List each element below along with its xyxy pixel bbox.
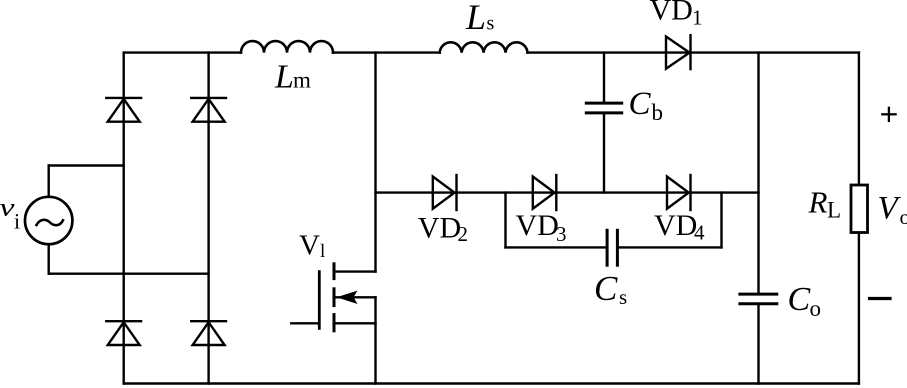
diode bridge top-right: bar	[191, 97, 226, 99]
svg-text:o: o	[900, 205, 907, 229]
svg-text:C: C	[594, 269, 618, 308]
label vi	[0, 195, 20, 234]
label RL	[808, 185, 842, 223]
wire bridge leg 1	[122, 53, 124, 384]
svg-text:l: l	[320, 241, 325, 262]
diode VD4 triangle	[667, 177, 689, 209]
capacitor Co plates	[740, 294, 777, 304]
transistor V1 MOSFET channel segments	[333, 264, 336, 331]
svg-text:4: 4	[694, 220, 705, 244]
label Ls	[465, 0, 495, 37]
label Lm	[274, 58, 311, 95]
svg-text:o: o	[810, 296, 822, 321]
diode bridge top-left: bar	[106, 97, 141, 99]
label VD2	[418, 211, 468, 246]
svg-text:L: L	[827, 197, 841, 222]
wire bottom bus	[124, 382, 859, 384]
wire AC source top	[49, 164, 124, 166]
wire Cs branch right vertical	[720, 193, 722, 248]
svg-text:i: i	[14, 209, 20, 234]
transistor V1 source lead	[334, 322, 376, 324]
transistor V1 drain lead	[334, 270, 376, 272]
svg-text:VD: VD	[418, 211, 461, 244]
diode bridge bottom-left: triangle	[108, 322, 140, 345]
diode VD2 triangle	[433, 177, 455, 209]
wire AC source bottom	[49, 273, 209, 275]
svg-text:VD: VD	[650, 0, 693, 27]
svg-text:3: 3	[556, 222, 567, 246]
svg-text:L: L	[274, 58, 294, 95]
wire top bus left segment	[124, 51, 241, 53]
wire node A vertical (Lm-Ls junction down to MOSFET drain)	[374, 53, 376, 272]
label VD4	[654, 209, 705, 244]
svg-text:V: V	[299, 230, 320, 262]
inductor Ls	[440, 42, 528, 52]
wire right bus lower (RL to bottom bus)	[858, 233, 860, 384]
wire Co branch upper	[757, 53, 759, 295]
svg-text:C: C	[629, 86, 652, 122]
diode bridge bottom-left: bar	[106, 320, 141, 322]
diode VD1 bar	[689, 35, 691, 69]
diode bridge top-left: triangle	[108, 99, 140, 122]
wire top bus middle segment	[333, 51, 440, 53]
label V1 (MOSFET)	[299, 230, 325, 262]
svg-text:m: m	[293, 68, 311, 93]
svg-text:2: 2	[458, 222, 469, 246]
AC source vi circle	[25, 197, 72, 244]
wire Cb upper stub	[603, 53, 605, 104]
wire Cs branch left horizontal	[506, 246, 608, 248]
wire Cs branch right horizontal	[617, 246, 721, 248]
wire bridge leg 2	[207, 53, 209, 384]
diode VD3 bar	[555, 175, 557, 210]
diode bridge bottom-right: bar	[191, 320, 226, 322]
svg-text:s: s	[487, 13, 495, 35]
wire AC source top stub	[48, 166, 50, 197]
diode bridge bottom-right: triangle	[193, 322, 225, 345]
wire Cb lower stub	[603, 113, 605, 193]
capacitor Cs plates	[607, 230, 617, 265]
diode VD1 triangle	[666, 37, 690, 69]
inductor Lm	[241, 41, 333, 52]
svg-text:R: R	[808, 185, 828, 220]
transistor V1 MOSFET gate bar	[318, 272, 321, 329]
resistor RL body	[851, 185, 868, 233]
diode VD2 bar	[455, 175, 457, 210]
minus sign	[870, 297, 891, 300]
label Cb	[629, 86, 664, 125]
wire middle bus	[376, 191, 759, 193]
transistor V1 arrowhead	[337, 291, 358, 304]
svg-text:C: C	[788, 281, 811, 318]
wire Cs branch left vertical	[504, 193, 506, 248]
svg-text:VD: VD	[516, 209, 559, 242]
svg-text:1: 1	[692, 6, 703, 30]
label Vo	[878, 191, 907, 229]
wire Co branch lower	[757, 304, 759, 384]
label VD1	[650, 0, 703, 30]
label VD3	[516, 209, 567, 246]
label Cs	[594, 269, 627, 309]
capacitor Cb plates	[586, 103, 621, 113]
wire AC source bottom stub	[48, 245, 50, 274]
transistor V1 body lead with arrow	[334, 296, 376, 298]
diode VD3 triangle	[533, 177, 555, 209]
svg-text:VD: VD	[654, 209, 697, 242]
wire MOSFET source down to bottom bus	[374, 297, 376, 383]
wire top bus right segment	[528, 51, 859, 53]
transistor V1 gate lead	[291, 322, 319, 324]
svg-text:s: s	[619, 285, 627, 309]
svg-text:L: L	[465, 0, 486, 37]
AC source sine symbol	[37, 220, 64, 225]
svg-text:b: b	[652, 100, 664, 125]
plus sign	[882, 108, 895, 121]
wire right bus upper (to RL)	[858, 53, 860, 185]
diode bridge top-right: triangle	[193, 99, 225, 122]
label Co	[788, 281, 822, 321]
diode VD4 bar	[689, 175, 691, 210]
